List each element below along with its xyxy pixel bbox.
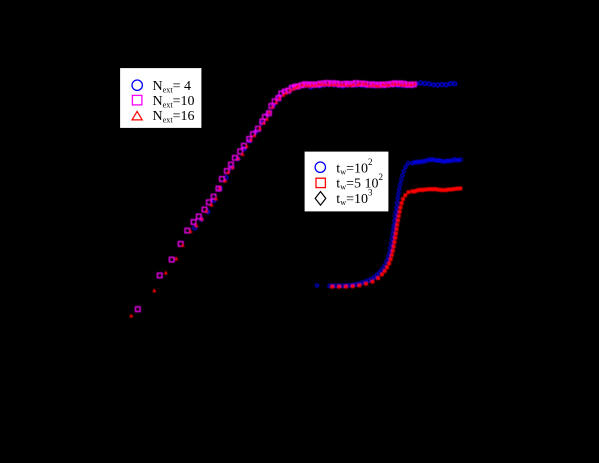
svg-text:Next=16: Next=16 — [153, 109, 195, 125]
svg-text:Next=10: Next=10 — [153, 94, 195, 110]
svg-text:Next= 4: Next= 4 — [153, 79, 192, 95]
